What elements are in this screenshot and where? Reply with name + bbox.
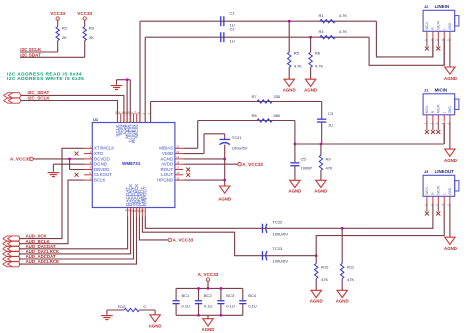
svg-text:20: 20: [176, 150, 180, 154]
svg-text:TC22: TC22: [273, 220, 284, 225]
svg-text:C3: C3: [328, 111, 334, 116]
svg-text:RHPOUT: RHPOUT: [143, 186, 148, 206]
svg-text:AVDD: AVDD: [161, 162, 174, 167]
svg-text:C1: C1: [230, 11, 236, 16]
svg-text:R11: R11: [347, 265, 355, 270]
svg-text:AGND: AGND: [160, 156, 174, 161]
svg-text:R1: R1: [319, 13, 325, 18]
svg-text:R12: R12: [118, 304, 126, 309]
svg-text:TC21: TC21: [232, 135, 243, 140]
svg-text:A_VCC33: A_VCC33: [242, 162, 263, 167]
svg-text:0.1U: 0.1U: [204, 303, 213, 308]
svg-text:R9: R9: [326, 157, 332, 162]
svg-text:R6: R6: [315, 51, 321, 56]
svg-text:4.7K: 4.7K: [294, 63, 303, 68]
svg-text:LINEIN: LINEIN: [435, 4, 449, 9]
svg-text:MICIN: MICIN: [435, 88, 447, 93]
svg-text:GND: GND: [448, 22, 452, 30]
svg-text:I2C SCLK: I2C SCLK: [20, 47, 42, 52]
svg-text:GND: GND: [448, 106, 452, 114]
svg-text:16: 16: [176, 171, 180, 175]
svg-text:18: 18: [176, 160, 180, 164]
svg-text:R5: R5: [294, 51, 300, 56]
svg-text:VCC33: VCC33: [50, 11, 65, 16]
svg-text:14: 14: [142, 209, 146, 213]
svg-text:U1: U1: [93, 117, 99, 122]
svg-text:AGND: AGND: [336, 299, 349, 304]
svg-text:R8: R8: [252, 113, 258, 118]
svg-text:L: L: [442, 111, 446, 113]
svg-text:21: 21: [136, 111, 140, 115]
svg-text:17: 17: [176, 166, 180, 170]
svg-text:AGND: AGND: [310, 299, 323, 304]
svg-text:TC23: TC23: [273, 246, 284, 251]
svg-text:R10: R10: [321, 265, 329, 270]
svg-text:15: 15: [176, 176, 180, 180]
svg-text:0.1U: 0.1U: [182, 303, 191, 308]
svg-text:BC1: BC1: [182, 293, 191, 298]
svg-text:DGND: DGND: [94, 162, 107, 167]
svg-text:R2: R2: [62, 26, 68, 31]
svg-text:AGND: AGND: [304, 87, 317, 92]
svg-text:N/C/R: N/C/R: [437, 185, 441, 194]
svg-text:A_VCC33: A_VCC33: [173, 238, 194, 243]
svg-text:47K: 47K: [321, 277, 328, 282]
svg-text:C5: C5: [301, 157, 307, 162]
svg-text:AGND: AGND: [444, 246, 457, 251]
svg-text:AGND: AGND: [444, 158, 457, 163]
svg-text:XTI/MCLK: XTI/MCLK: [94, 146, 114, 151]
svg-text:A_VCC33: A_VCC33: [198, 272, 219, 277]
svg-text:AGND: AGND: [202, 327, 215, 332]
svg-text:47K: 47K: [347, 277, 354, 282]
svg-text:N/C/L: N/C/L: [425, 186, 429, 194]
svg-text:0.1U: 0.1U: [226, 303, 235, 308]
svg-text:AUD_ADCLRCK: AUD_ADCLRCK: [26, 259, 60, 264]
svg-text:N/C/L: N/C/L: [425, 105, 429, 113]
svg-text:4.7K: 4.7K: [315, 63, 324, 68]
svg-text:J2: J2: [424, 4, 429, 9]
svg-text:MBIAS: MBIAS: [159, 146, 173, 151]
svg-text:I2C SDAT: I2C SDAT: [20, 52, 41, 57]
svg-text:DCVDD: DCVDD: [94, 156, 110, 161]
svg-text:100U/6V: 100U/6V: [273, 231, 289, 236]
svg-text:4.7K: 4.7K: [339, 13, 348, 18]
svg-text:4.7K: 4.7K: [339, 29, 348, 34]
svg-text:100U/6V: 100U/6V: [232, 146, 248, 151]
svg-text:MICIN: MICIN: [134, 125, 139, 138]
svg-text:0.1U: 0.1U: [248, 303, 257, 308]
svg-text:LINEOUT: LINEOUT: [435, 169, 455, 174]
svg-text:330: 330: [274, 94, 281, 99]
svg-text:BC2: BC2: [204, 293, 213, 298]
svg-text:2K: 2K: [62, 35, 67, 40]
svg-text:WM8731: WM8731: [122, 161, 141, 166]
svg-text:AGND: AGND: [314, 189, 327, 194]
svg-text:AGND: AGND: [288, 189, 301, 194]
svg-text:A_VCC33: A_VCC33: [10, 157, 31, 162]
svg-text:I2C_SCLK: I2C_SCLK: [28, 95, 51, 100]
svg-text:1U: 1U: [328, 122, 333, 127]
svg-text:1U: 1U: [230, 38, 235, 43]
svg-text:680: 680: [274, 113, 281, 118]
svg-text:R4: R4: [319, 29, 325, 34]
svg-text:L: L: [442, 193, 446, 195]
svg-text:I2C ADDRESS WRITE IS 0x35: I2C ADDRESS WRITE IS 0x35: [7, 76, 84, 82]
svg-text:100U/6V: 100U/6V: [273, 259, 289, 264]
svg-text:VCC33: VCC33: [77, 11, 92, 16]
svg-text:J1: J1: [424, 88, 429, 93]
svg-text:CLKOUT: CLKOUT: [94, 172, 112, 177]
svg-text:GND: GND: [448, 187, 452, 195]
svg-text:DBVDD: DBVDD: [94, 167, 109, 172]
svg-text:XTO: XTO: [94, 151, 104, 156]
svg-text:J3: J3: [424, 169, 429, 174]
svg-text:N/C/R: N/C/R: [437, 104, 441, 113]
svg-text:1000P: 1000P: [301, 166, 313, 171]
svg-text:L: L: [442, 28, 446, 30]
svg-text:N/C/R: N/C/R: [437, 20, 441, 29]
svg-text:R7: R7: [252, 94, 258, 99]
svg-text:HPGND: HPGND: [157, 178, 174, 183]
svg-text:N/C/L: N/C/L: [425, 21, 429, 29]
svg-text:BCLK: BCLK: [94, 178, 106, 183]
svg-text:19: 19: [176, 155, 180, 159]
svg-text:AGND: AGND: [444, 76, 457, 81]
svg-text:R3: R3: [89, 26, 95, 31]
svg-text:AGND: AGND: [218, 196, 231, 201]
svg-text:AGND: AGND: [149, 323, 162, 328]
svg-text:47K: 47K: [326, 166, 333, 171]
svg-text:AGND: AGND: [283, 87, 296, 92]
svg-text:BC3: BC3: [226, 293, 235, 298]
svg-text:2K: 2K: [89, 35, 94, 40]
svg-text:VMID: VMID: [162, 151, 174, 156]
svg-text:BC4: BC4: [248, 293, 257, 298]
svg-text:ROUT: ROUT: [161, 167, 174, 172]
svg-text:21: 21: [176, 145, 180, 149]
svg-text:C2: C2: [230, 27, 236, 32]
svg-text:LOUT: LOUT: [161, 172, 173, 177]
